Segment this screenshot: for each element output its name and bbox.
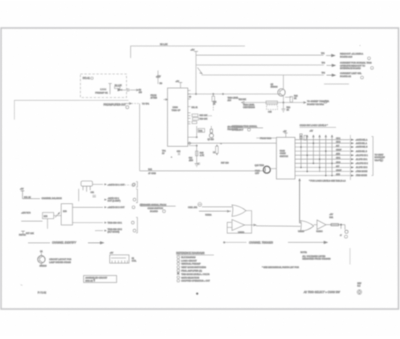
svg-text:CHOPPED OPERATION + OUT: CHOPPED OPERATION + OUT (181, 280, 210, 283)
junction at +5V vertical and base line (195, 93, 196, 94)
column 1 (300, 135, 302, 168)
page number dot bottom center (196, 293, 198, 295)
svg-text:ATTEN: ATTEN (151, 96, 158, 99)
svg-text:CHAN: CHAN (280, 152, 286, 155)
svg-text:CHANNEL BALANCE: CHANNEL BALANCE (42, 197, 63, 200)
arrow: left end of main wire (242, 101, 245, 103)
circled ref internal trig (248, 128, 251, 131)
svg-text:C81: C81 (91, 192, 94, 194)
svg-text:MEASURED FROM CHASSIS: MEASURED FROM CHASSIS (302, 258, 331, 261)
svg-text:U330: U330 (173, 107, 179, 109)
svg-text:P/O A1: P/O A1 (83, 77, 91, 80)
svg-text:+5V: +5V (191, 49, 195, 51)
svg-text:BAL 11: BAL 11 (192, 106, 198, 109)
wire: CHANNEL IDENTIFY right part with arrow (88, 242, 104, 244)
wire: CHANNEL TRIGGER line left part (224, 241, 247, 243)
capacitor mark (93, 195, 96, 196)
svg-text:U150C: U150C (316, 231, 323, 233)
wire: long run to U150B (256, 225, 301, 228)
row pin y=159.2 (295, 158, 350, 160)
circled ref in preamp box (91, 77, 93, 79)
circled ref below (345, 235, 348, 238)
wire: CHANNEL TRIGGER line right part with arrow (288, 241, 327, 243)
arrow: diagonal tap from +5V vertical to y=75 bus (198, 68, 203, 74)
svg-text:CIRCUIT LAYOUT FOR: CIRCUIT LAYOUT FOR (49, 258, 72, 261)
wire: main horizontal y=102.5 (244, 102, 303, 104)
svg-text:FROM U330: FROM U330 (260, 138, 272, 140)
row pin y=163.3 (295, 162, 350, 164)
node mark circled plus (198, 203, 202, 207)
node dot at left end (223, 242, 225, 244)
svg-text:U440: U440 (280, 150, 286, 152)
svg-text:270: 270 (139, 92, 142, 94)
row pin y=167.4 (295, 166, 350, 168)
circled ref bus1 (368, 57, 371, 60)
wire: into U440 left low (256, 137, 276, 139)
svg-text:B-2: B-2 (357, 285, 360, 287)
faint dot top right (360, 45, 361, 46)
svg-text:CHAN SW LOGIC LEVELS *: CHAN SW LOGIC LEVELS * (300, 124, 328, 127)
junction at vertical bottom (196, 137, 197, 138)
svg-text:U150D: U150D (238, 232, 245, 234)
matrix columns with up arrows (300, 135, 333, 176)
svg-text:BOARD A10: BOARD A10 (340, 55, 353, 58)
column 3 (313, 135, 315, 164)
svg-text:CHOP: CHOP (336, 170, 342, 172)
junction dot on base wire (222, 93, 223, 94)
wire: U150D output with arrow (245, 224, 257, 226)
resistor R13 on main wire (266, 101, 278, 104)
resistor L3 vertical dark ends (216, 146, 219, 153)
svg-text:+GATE SEL B: +GATE SEL B (356, 146, 369, 149)
note row 2 (177, 259, 180, 262)
svg-text:R71 2K: R71 2K (24, 197, 31, 199)
relay internal ticks (112, 261, 127, 264)
svg-text:R5 1.5K: R5 1.5K (160, 44, 168, 46)
circled ref right block (380, 159, 383, 162)
svg-text:CURRENT LIMIT SEL: CURRENT LIMIT SEL (340, 73, 362, 75)
note row 6 (bold start) (177, 272, 179, 274)
wire: base line y=94 from IC to Q5 (188, 93, 280, 95)
svg-text:BOARD VIA W14: BOARD VIA W14 (307, 103, 325, 106)
svg-text:· · ·: · · · (208, 115, 212, 118)
network right of output (341, 225, 345, 230)
circled ref in text block (163, 210, 166, 213)
power tap bottom (21, 231, 25, 235)
row pin y=175.5 (295, 175, 350, 177)
pot box R75 (43, 213, 54, 219)
arrow: pot wiper (55, 213, 60, 218)
svg-text:2N3906: 2N3906 (271, 87, 279, 89)
svg-text:R22 10K: R22 10K (239, 99, 247, 101)
svg-text:ADJ: ADJ (228, 99, 232, 102)
svg-text:R77 10K: R77 10K (26, 233, 34, 235)
wire: bus line y=65 (196, 64, 324, 66)
row pin y=139.7 (295, 139, 350, 141)
svg-text:* SEE MECHANICAL PARTS LIS: * SEE MECHANICAL PARTS LIST FOR (262, 266, 299, 269)
wire: bus line y=75 (202, 74, 325, 76)
wire: bus line y=55 (196, 54, 324, 56)
capacitor box below main wire (267, 105, 278, 110)
svg-text:OPERATE READOUT TO: OPERATE READOUT TO (340, 64, 365, 67)
svg-text:P / O A2: P / O A2 (38, 292, 47, 295)
matrix junction dots (300, 142, 333, 176)
resistor R21 at x=212 top (212, 96, 215, 101)
arrow: bus line y=55 end (326, 54, 335, 56)
buffer gate U150D triangle (232, 220, 245, 231)
wire: CHANNEL IDENTIFY line left part (28, 242, 50, 244)
junction base line R21 (213, 93, 214, 94)
wire: dark vertical from matrix to gate U150B (300, 179, 302, 223)
svg-text:+GATE SEL A: +GATE SEL A (356, 138, 369, 141)
svg-text:SWITCH: SWITCH (280, 156, 289, 158)
svg-text:CURRENT FOR NORMAL TRIG: CURRENT FOR NORMAL TRIG (340, 62, 372, 65)
wire: Q5 emitter down to main wire (282, 96, 284, 103)
svg-text:+GATE CH 1 OUT: +GATE CH 1 OUT (108, 183, 126, 186)
wire: +15V feed (21, 220, 42, 222)
transistor element vertical in preamp (108, 84, 111, 95)
OR gate U150A (232, 205, 246, 217)
svg-text:CENTERING: CENTERING (243, 107, 255, 109)
svg-text:+15V: +15V (156, 76, 161, 78)
resistor network small box 2 (193, 118, 199, 121)
junction (196, 145, 197, 146)
dashed stub and circled ref lower-left (122, 184, 131, 186)
resistor box R31 (198, 129, 205, 133)
svg-text:FINAL AMPLIFIER (A): FINAL AMPLIFIER (A) (181, 270, 202, 273)
svg-text:MODE SW: MODE SW (375, 157, 385, 159)
buffer U150C triangle right (317, 220, 326, 229)
wire: Q5 collector up to bus y=75 (282, 75, 284, 89)
column 4 (319, 135, 321, 172)
op-amp U330 main IC box (168, 88, 188, 146)
resistor R2 preamp (115, 87, 121, 89)
diode CR1 preamp (118, 89, 122, 91)
power tap +15V left above IC (157, 71, 159, 85)
IC U440 channel switch box (276, 137, 295, 179)
svg-text:C52: C52 (177, 151, 180, 153)
wire: bottom pin connect (188, 136, 197, 138)
wire: feedback input (227, 226, 232, 228)
svg-text:-GATE CH 1: -GATE CH 1 (108, 197, 120, 200)
wire: Q5 emitter lower stub to ground (282, 103, 284, 110)
ground below Q5 (281, 109, 285, 112)
svg-text:-GATE SEL B: -GATE SEL B (356, 150, 368, 153)
arrow: bus line y=65 end (327, 64, 336, 66)
svg-text:R26 10K: R26 10K (200, 119, 208, 121)
power tap +5V above IC (180, 83, 182, 89)
circled ref bus3 (361, 76, 364, 79)
svg-text:TO TP1: TO TP1 (142, 103, 150, 105)
wire: between gates (314, 224, 317, 226)
wire: short segment y=84 right (324, 83, 349, 85)
svg-text:-GATE SEL A: -GATE SEL A (356, 142, 368, 145)
svg-text:GATE SELECTION: GATE SELECTION (181, 276, 199, 279)
resistor R12 right of Q5 (285, 96, 291, 98)
svg-text:TP3: TP3 (322, 63, 325, 65)
svg-text:CH 1: CH 1 (336, 158, 340, 160)
wire: IC bottom stub y=145.5 (189, 146, 197, 164)
svg-text:L3: L3 (213, 152, 215, 154)
row pin y=171.4 (295, 170, 350, 172)
wire: block out top (73, 206, 104, 208)
svg-text:BLK DIAGRAM: BLK DIAGRAM (181, 256, 195, 259)
svg-text:+SLOPE CH 2: +SLOPE CH 2 (356, 163, 368, 165)
svg-text:VERTICAL PREAMP: VERTICAL PREAMP (181, 263, 201, 266)
svg-text:CHANNEL TRIGGER: CHANNEL TRIGGER (249, 241, 273, 244)
arrow: main wire to sweep trigger (303, 102, 306, 104)
svg-text:U150A: U150A (205, 213, 212, 216)
note row 4 (177, 266, 180, 269)
row pin y=147 (295, 146, 350, 148)
svg-text:CH 2: CH 2 (336, 162, 340, 164)
svg-text:IN SELECT: IN SELECT (232, 129, 244, 131)
arrow: bus line y=75 end (327, 74, 336, 76)
wire: pin drop long (78, 189, 80, 202)
wire: row1 stub (93, 183, 104, 185)
svg-text:TRIG SIG CH 1: TRIG SIG CH 1 (108, 223, 123, 225)
column 5 (325, 135, 327, 176)
svg-text:+15V R73: +15V R73 (21, 212, 31, 214)
note row 1 (177, 256, 180, 259)
dashed box: preamplifier P/O A1 (80, 74, 126, 98)
transistor Q1 bottom-left (38, 256, 45, 263)
wire: into gate U150A with arrow (199, 210, 231, 212)
row pin y=151.1 (295, 150, 350, 152)
svg-text:ADD: ADD (336, 173, 341, 176)
wire: vertical feed below pins x=196.7 (196, 126, 198, 137)
wire: pot down stub (47, 219, 49, 229)
wire: top input of U150A (202, 206, 232, 208)
junction diamond at wire start (188, 142, 191, 144)
transistor Q5 (278, 89, 285, 96)
wire: stub into IC left (164, 99, 168, 101)
circled ref bus2 (371, 67, 374, 70)
connector separator line right of matrix (349, 135, 351, 180)
power +5V tap at x=196 (194, 50, 198, 52)
svg-text:VERT MODE SWITCHING: VERT MODE SWITCHING (181, 267, 206, 269)
note row 3 (177, 262, 180, 265)
svg-text:R37 220: R37 220 (221, 162, 229, 164)
row pin y=155.2 (295, 154, 350, 156)
output row 4 (104, 222, 107, 224)
svg-text:C212 .001: C212 .001 (188, 207, 198, 209)
svg-text:* FOR LOGIC LEVELS SEE TAB: * FOR LOGIC LEVELS SEE TABLE 4-2 (309, 179, 346, 182)
svg-text:TO VERT: TO VERT (375, 154, 385, 156)
svg-text:+TRIG MODE: +TRIG MODE (356, 171, 369, 173)
wire: dashed preamp-out run to vertical (132, 103, 140, 105)
svg-text:A2 TRIG SELECT + CHAN SW: A2 TRIG SELECT + CHAN SW (303, 290, 341, 294)
svg-text:2N2219: 2N2219 (40, 266, 48, 268)
wire: block out bottom (73, 222, 104, 224)
circled ref sweep trigger (324, 100, 327, 103)
pin stub IC right y=94 (base feed) tick (188, 93, 191, 95)
dashes below R21 (212, 105, 214, 112)
wire: channel balance feed (23, 198, 41, 200)
matrix row pins from U440 (295, 140, 350, 176)
svg-text:OUT (A SWP): OUT (A SWP) (108, 200, 121, 203)
svg-text:+SLOPE CH 1: +SLOPE CH 1 (356, 155, 368, 157)
junction (340, 224, 342, 226)
wire: block in left (54, 215, 62, 217)
paper scan speckle (0, 0, 1, 1)
output row 5 (2 lines) (104, 230, 107, 232)
svg-text:ASSEMBLED CIRCUIT: ASSEMBLED CIRCUIT (85, 277, 107, 280)
arrow: preamp out pointer (126, 103, 132, 105)
resistor network small box 3 (192, 121, 197, 123)
pin stubs y=112.8..123.8 (188, 112, 191, 114)
svg-text:Q13 TRIG: Q13 TRIG (255, 165, 265, 167)
fold line right (349, 248, 351, 265)
wire: row5 stub (95, 230, 103, 232)
wire: long horizontal trigger pickoff y=170.8 (140, 170, 264, 172)
pin stub y=106.6 with label (188, 106, 191, 108)
wire: top bus corner at x=130 (131, 46, 245, 58)
wire: vertical +5V feed x=196 (195, 51, 197, 94)
resistor R35 on vertical (196, 151, 199, 156)
svg-text:BRD A2: BRD A2 (85, 279, 93, 282)
junction Q5 emitter on main wire (283, 102, 284, 103)
svg-text:TRIG CF: TRIG CF (172, 110, 181, 112)
resistor pair top-left of matrix (300, 134, 302, 139)
svg-text:CH 2: CH 2 (336, 142, 340, 144)
svg-text:Q7 403: Q7 403 (208, 139, 214, 141)
svg-text:47 OHM: 47 OHM (148, 173, 156, 175)
svg-text:1 2 3 4: 1 2 3 4 (100, 89, 106, 91)
wire: U150A output loop to U150B lower gate (227, 211, 251, 234)
svg-text:39: 39 (189, 97, 191, 99)
wire: input line continues under preamp box (80, 99, 129, 101)
svg-text:LOGIC CIRCUIT: LOGIC CIRCUIT (181, 260, 197, 262)
wire: top input stub (299, 222, 302, 224)
transistor Q7 small (209, 134, 213, 138)
column 2 (306, 135, 308, 172)
pin stub y=99 (188, 98, 191, 100)
svg-text:-SLOPE CH 2: -SLOPE CH 2 (356, 167, 368, 169)
bracket right of rows (372, 137, 374, 176)
svg-text:CHANNEL IDENTIFY: CHANNEL IDENTIFY (52, 242, 76, 245)
column 6 (331, 135, 333, 176)
svg-text:TRIG SIG CH 2: TRIG SIG CH 2 (108, 229, 123, 231)
svg-text:NOTE:: NOTE: (301, 252, 308, 254)
svg-text:(2): (2) (140, 204, 143, 206)
svg-text:CHOP: CHOP (336, 150, 342, 152)
ground below R35 (195, 164, 199, 167)
capacitor mark below label (178, 153, 180, 154)
svg-text:4.7K: 4.7K (200, 155, 205, 157)
circled diamond ref at title end (357, 290, 362, 295)
connector pins below (83, 186, 90, 192)
svg-text:TP2: TP2 (321, 53, 324, 55)
svg-text:ALL VOLTAGES LISTED: ALL VOLTAGES LISTED (302, 255, 325, 258)
circled ref below preamp out (126, 106, 129, 109)
svg-text:PREAMPLIFIER OUT: PREAMPLIFIER OUT (104, 103, 127, 106)
svg-text:BOARD A2: BOARD A2 (340, 75, 352, 78)
svg-text:U150B: U150B (298, 231, 305, 233)
svg-text:CH 1: CH 1 (336, 138, 340, 140)
wire: IC bottom out y=143 to switch box (189, 142, 276, 144)
resistor dark R33 vertical at x=211 (210, 126, 212, 129)
faint tick mark (21, 284, 23, 287)
svg-text:(ALT MODE): (ALT MODE) (108, 231, 120, 234)
arrow at top of dark vertical (299, 179, 301, 181)
row pin y=143 (295, 142, 350, 144)
connector pin bracket (127, 88, 129, 91)
svg-text:LAMP DRIVER STAGE: LAMP DRIVER STAGE (49, 261, 71, 264)
bracket rows 4-5 (136, 217, 137, 233)
note row 7 (177, 276, 180, 279)
svg-text:READOUT +ILLUMIN A: READOUT +ILLUMIN A (340, 53, 364, 56)
small circle node (345, 230, 348, 233)
svg-text:R83 1K: R83 1K (19, 234, 26, 236)
connector J2 rounded box (81, 181, 93, 186)
svg-text:CHAN SWITCH: CHAN SWITCH (148, 207, 164, 210)
svg-text:-SLOPE CH 1: -SLOPE CH 1 (356, 159, 368, 161)
bracket rows 2-3 (136, 189, 137, 203)
output row 2 (104, 199, 107, 201)
svg-text:PREAMP N1: PREAMP N1 (95, 92, 108, 95)
arrow: preamp out stub (130, 89, 139, 91)
matrix output rows: labels and arrows (336, 138, 368, 177)
svg-text:BOARD: BOARD (150, 210, 158, 213)
pin stub IC right y=90.5 (188, 90, 191, 92)
output row 3 (104, 206, 107, 208)
relay K1 box (110, 255, 129, 263)
svg-text:+GATE CH 2 OUT: +GATE CH 2 OUT (108, 206, 126, 209)
component dark marks on output (331, 224, 339, 226)
wire: long vertical trigger pickoff feed (139, 104, 141, 171)
svg-text:TRIG MODE LEVELS + VOLTS: TRIG MODE LEVELS + VOLTS (181, 274, 210, 276)
wire: preamp output to connector (122, 89, 127, 91)
svg-text:R25 10K: R25 10K (200, 115, 208, 117)
attenuator block tall rect (61, 204, 72, 225)
svg-text:-TRIG MODE: -TRIG MODE (356, 175, 368, 177)
svg-text:INTERFACE BOARD: INTERFACE BOARD (340, 67, 361, 70)
resistor network small box 1 (192, 114, 198, 117)
OR gate U150B right (301, 221, 314, 232)
svg-text:TP4: TP4 (322, 73, 325, 75)
svg-text:ADD: ADD (336, 153, 341, 156)
wire: Q13 to switch box (270, 168, 276, 170)
transistor Q13 trigger pickoff (dark) (263, 166, 270, 173)
power +5V tap above U440 (285, 133, 287, 137)
wire: output of U150C with component marks (326, 224, 345, 226)
note row 5 (177, 269, 180, 272)
output row 1: arrow, label, circled ref, bracket (104, 183, 107, 185)
mark below (198, 163, 201, 164)
assembly note box bottom middle (84, 276, 117, 283)
wire: input signal line left (14, 100, 79, 119)
note row 8 (177, 279, 180, 282)
